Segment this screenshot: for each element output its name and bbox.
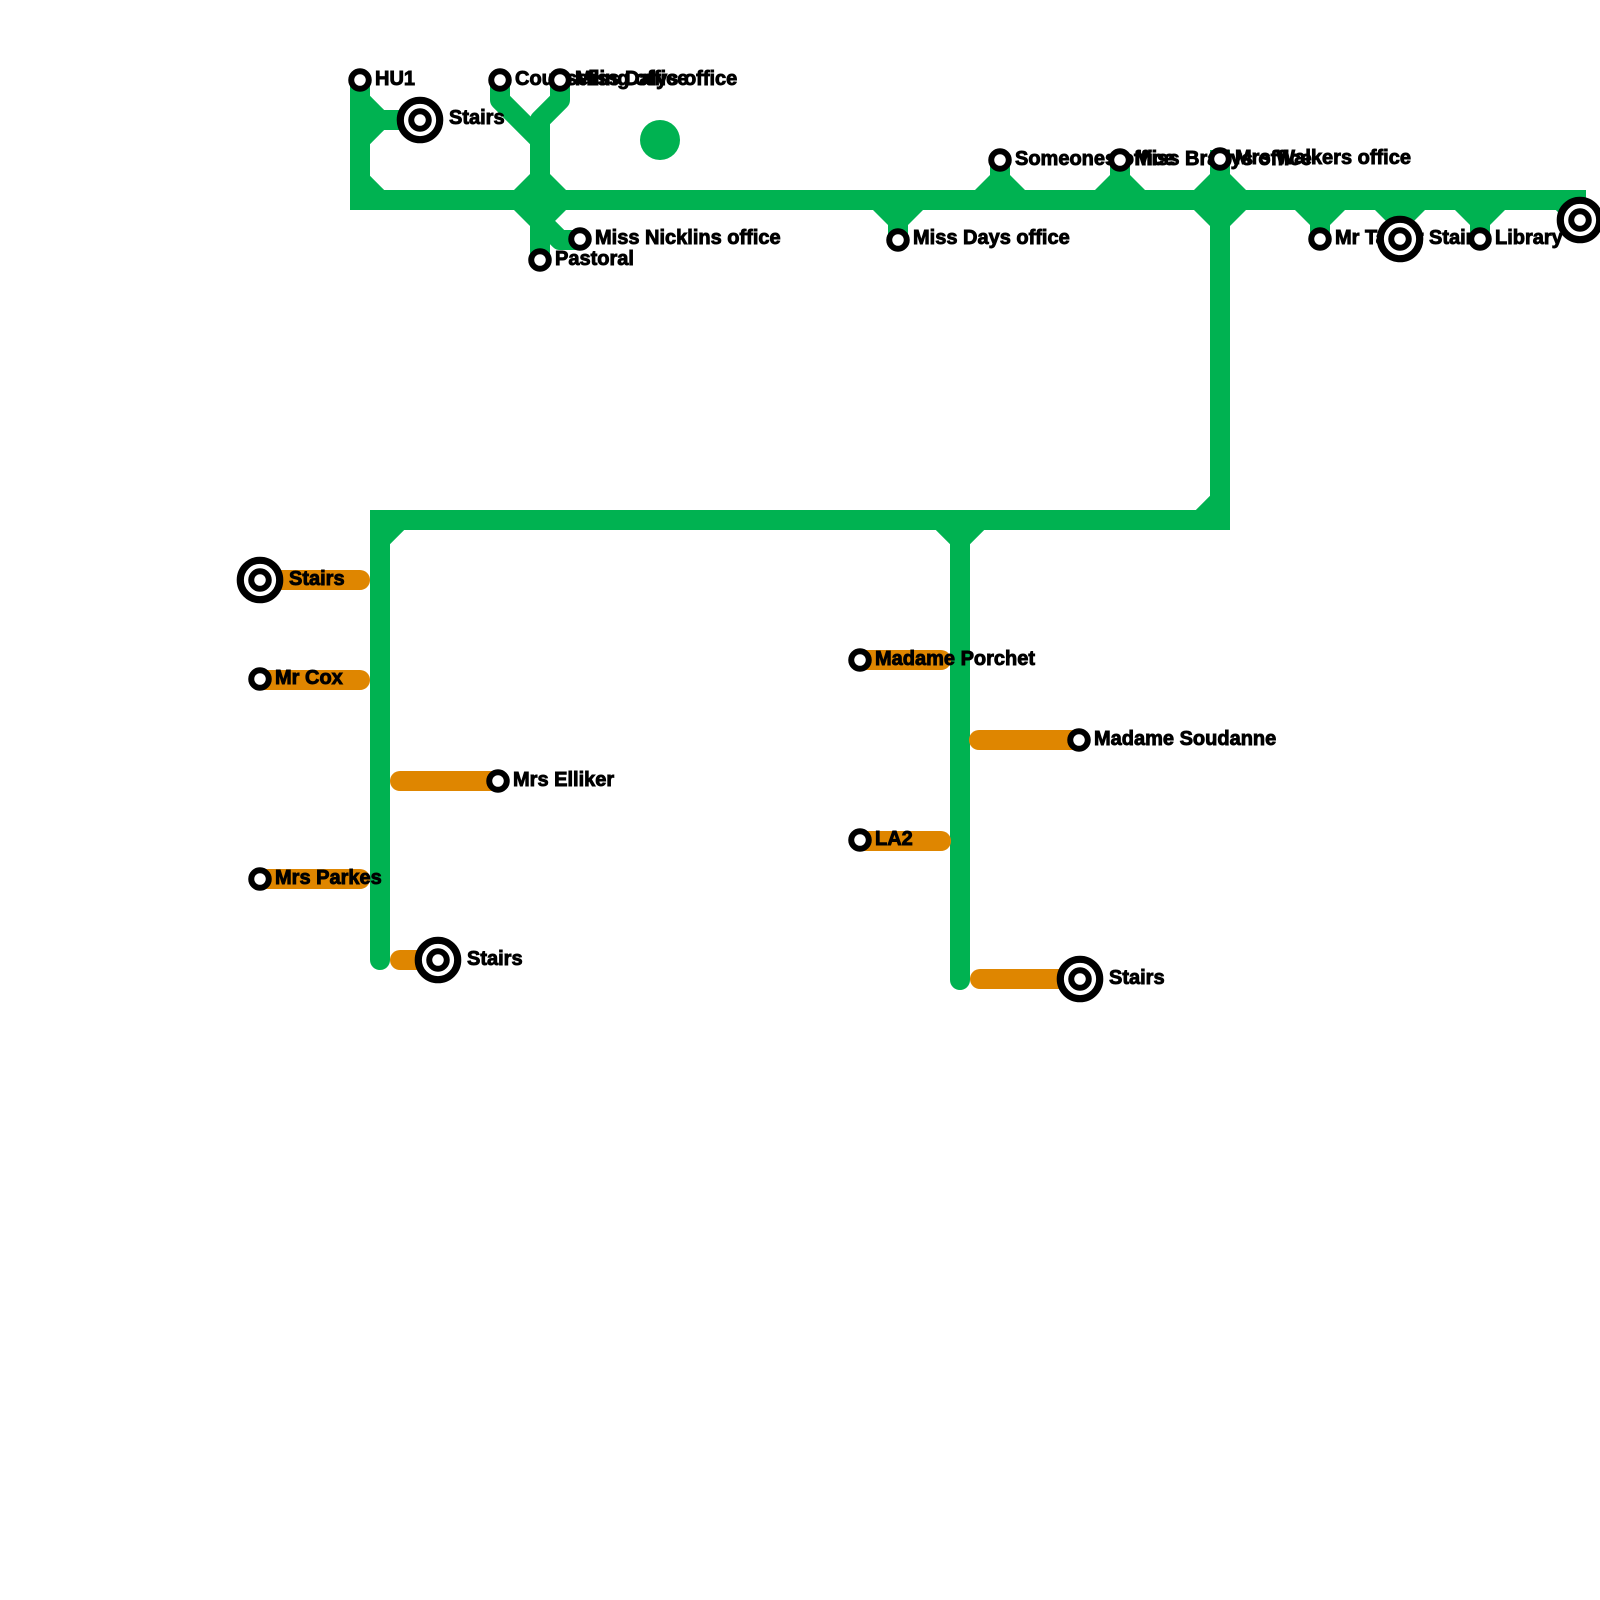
wire madame porchet bar	[860, 650, 941, 670]
wire HU1 corner chamfer	[360, 180, 380, 200]
node HU1	[351, 71, 369, 89]
svg-text:Madame Porchet: Madame Porchet	[875, 648, 1035, 670]
node green dot	[640, 120, 680, 160]
wire walkers stub and trunk vertical	[1210, 150, 1230, 520]
node LA2	[851, 831, 869, 849]
wire stairs BR bar	[980, 969, 1080, 989]
node Mrs Elliker	[489, 772, 507, 790]
node Stairs interchange top-left	[400, 100, 439, 139]
svg-text:Pastoral: Pastoral	[555, 248, 634, 270]
orange line segments	[260, 580, 1080, 979]
svg-text:Mrs Walkers office: Mrs Walkers office	[1235, 147, 1411, 169]
wire LA2 bar	[860, 831, 941, 851]
wire left branch bottom cap	[370, 950, 390, 970]
node Miss Days office	[889, 231, 907, 249]
station labels	[275, 68, 1564, 989]
node junction diamond at 1220,200	[1194, 174, 1246, 226]
wire stairs BL bar	[400, 950, 438, 970]
green line network	[350, 80, 1586, 980]
svg-text:Mrs Parkes: Mrs Parkes	[275, 867, 382, 889]
wire mrs parkes bar	[260, 869, 360, 889]
node Miss Bradys office	[1111, 151, 1129, 169]
svg-text:Stairs: Stairs	[467, 948, 523, 970]
wire right branch bottom cap	[950, 970, 970, 990]
node Stairs interchange bottom-right	[1060, 959, 1099, 998]
svg-text:Madame Soudanne: Madame Soudanne	[1094, 728, 1276, 750]
wire stairs chevron lower diagonal	[360, 120, 380, 140]
wire stairs spur	[1375, 205, 1425, 239]
node Miss Dalys office	[551, 71, 569, 89]
svg-text:Stairs: Stairs	[1109, 967, 1165, 989]
node Miss Nicklins office	[571, 230, 589, 248]
wire stairs stub horizontal	[380, 110, 420, 130]
wire mrs elliker bar	[400, 771, 498, 791]
svg-text:Miss Nicklins office: Miss Nicklins office	[595, 227, 781, 249]
interchange symbols	[240, 100, 1599, 998]
wire mr cox bar	[260, 670, 360, 690]
svg-text:LA2: LA2	[875, 828, 913, 850]
wire madame soudanne bar	[979, 730, 1079, 750]
wire miss days spur	[873, 205, 923, 240]
node Madame Porchet	[851, 651, 869, 669]
svg-text:Stairs: Stairs	[449, 107, 505, 129]
node Stairs interchange on main line	[1380, 219, 1419, 258]
node Someones office	[991, 151, 1009, 169]
wire library spur	[1455, 205, 1505, 239]
node Library	[1471, 230, 1489, 248]
wire right branch vertical	[950, 520, 970, 980]
svg-text:Library: Library	[1495, 227, 1564, 249]
svg-text:Mr Cox: Mr Cox	[275, 667, 343, 689]
wire left branch vertical	[370, 520, 390, 960]
wire end diagonal	[1560, 200, 1580, 220]
station circles	[251, 71, 1489, 888]
node Stairs interchange lower-left	[240, 560, 279, 599]
svg-text:Miss Dalys office: Miss Dalys office	[575, 68, 737, 90]
wire right branch junction chamfer east	[960, 520, 980, 540]
node Mr Cox	[251, 670, 269, 688]
wire miss brays spur	[1095, 160, 1145, 195]
node Mrs Parkes	[251, 870, 269, 888]
wire HU1 vertical	[350, 80, 370, 200]
svg-text:Mrs Elliker: Mrs Elliker	[513, 769, 614, 791]
wire right branch junction chamfer west	[940, 520, 960, 540]
svg-text:HU1: HU1	[375, 68, 415, 90]
node Madame Soudanne	[1070, 731, 1088, 749]
node Counselling office	[491, 71, 509, 89]
node interchange right edge	[1560, 200, 1599, 239]
wire trunk corner chamfer	[1200, 500, 1220, 520]
node Mr Taylor	[1311, 230, 1329, 248]
svg-text:Miss Days office: Miss Days office	[913, 227, 1070, 249]
node junction diamond at 540,200	[514, 174, 566, 226]
wire stairs LL bar	[260, 570, 360, 590]
wire lower horizontal line y=520	[370, 510, 1230, 530]
node Mrs Walkers office	[1211, 150, 1229, 168]
svg-text:Stairs: Stairs	[289, 568, 345, 590]
wire counselling branch to pastoral	[500, 80, 540, 260]
wire main horizontal line y=200	[350, 190, 1586, 210]
wire dalys branch	[540, 80, 560, 145]
wire nicklins branch	[540, 200, 580, 240]
wire someones spur	[975, 160, 1025, 195]
wire stairs chevron upper diagonal	[360, 100, 380, 120]
wire mr taylor spur	[1295, 205, 1345, 239]
node Pastoral	[531, 251, 549, 269]
wire lower-left corner chamfer	[380, 520, 400, 540]
node Stairs interchange bottom-left	[418, 940, 457, 979]
